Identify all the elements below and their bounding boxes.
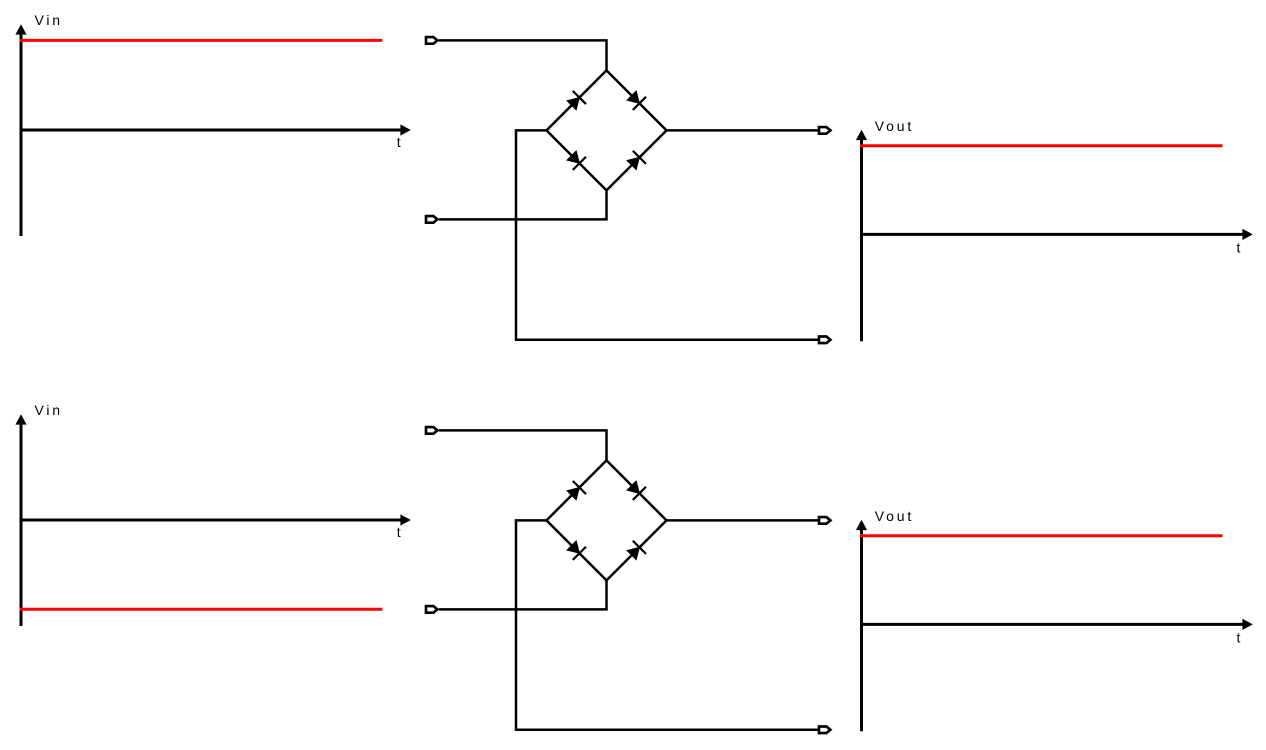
diode D2 (top node to right node), row 1	[625, 89, 647, 111]
wire: diode D2 branch (top node to right node), row 2	[607, 460, 667, 520]
graph 2: Vout trace (red, positive DC level)	[860, 144, 1223, 147]
graph 2 (row 1, Vout): y-axis with arrowhead	[856, 130, 867, 342]
graph 4: Vout trace (red, positive DC level)	[860, 534, 1223, 537]
wire: T1 to bridge top node, row 2	[439, 430, 607, 460]
diode D3 (left node to bottom node), row 2	[565, 539, 587, 561]
graph 3: Vin trace (red, negative DC level)	[20, 608, 383, 611]
wire: diode D4 branch (bottom node to right node), row 1	[607, 130, 667, 190]
terminal T3 (AC input b, row 2)	[426, 606, 437, 613]
svg-text:t: t	[397, 524, 404, 540]
terminal T4 (DC output -, row 2)	[819, 727, 830, 734]
diode D4 (bottom node to right node), row 2	[625, 540, 647, 562]
diode D3 (left node to bottom node), row 1	[565, 149, 587, 171]
wire: diode D3 branch (left node to bottom node), row 1	[547, 130, 607, 190]
svg-text:t: t	[397, 134, 404, 150]
graph 1 (row 1, Vin): y-axis with arrowhead	[15, 24, 26, 236]
svg-text:Vout: Vout	[875, 118, 914, 134]
wire: right node to T2 (DC out +), row 1	[667, 129, 819, 132]
diode D1 (left node to top node), row 2	[565, 480, 587, 502]
wire: left node down and across to T4 (DC out -), row 1	[516, 130, 818, 339]
terminal T4 (DC output -, row 1)	[819, 337, 830, 344]
wire: T3 to bridge bottom node, row 1	[439, 190, 607, 219]
graph 3 (row 2, Vin): y-axis with arrowhead	[15, 414, 26, 626]
svg-text:t: t	[1237, 629, 1244, 645]
wire: diode D1 branch (left node to top node), row 2	[547, 460, 607, 520]
wire: diode D2 branch (top node to right node), row 1	[607, 70, 667, 130]
wire: T1 to bridge top node, row 1	[439, 40, 607, 70]
diode D4 (bottom node to right node), row 1	[625, 150, 647, 172]
graph 1: x-axis with arrowhead	[21, 124, 411, 135]
diode D2 (top node to right node), row 2	[625, 479, 647, 501]
svg-text:Vout: Vout	[875, 508, 914, 524]
terminal T1 (AC input a, row 1)	[426, 37, 437, 44]
graph 3: x-axis with arrowhead	[21, 514, 411, 525]
svg-text:Vin: Vin	[35, 12, 63, 28]
wire: left node down and across to T4 (DC out -), row 2	[516, 520, 818, 729]
graph 2: x-axis with arrowhead	[862, 229, 1253, 240]
terminal T1 (AC input a, row 2)	[426, 427, 437, 434]
graph 4: x-axis with arrowhead	[862, 619, 1253, 630]
terminal T3 (AC input b, row 1)	[426, 216, 437, 223]
wire: diode D1 branch (left node to top node), row 1	[547, 70, 607, 130]
wire: T3 to bridge bottom node, row 2	[439, 580, 607, 609]
graph 4 (row 2, Vout): y-axis with arrowhead	[856, 520, 867, 732]
svg-text:Vin: Vin	[35, 402, 63, 418]
wire: right node to T2 (DC out +), row 2	[667, 519, 819, 522]
terminal T2 (DC output +, row 1)	[819, 127, 830, 134]
svg-text:t: t	[1237, 239, 1244, 255]
diode D1 (left node to top node), row 1	[565, 90, 587, 112]
wire: diode D3 branch (left node to bottom node), row 2	[547, 520, 607, 580]
wire: diode D4 branch (bottom node to right node), row 2	[607, 520, 667, 580]
graph 1: Vin trace (red, positive DC level)	[20, 39, 383, 42]
terminal T2 (DC output +, row 2)	[819, 517, 830, 524]
